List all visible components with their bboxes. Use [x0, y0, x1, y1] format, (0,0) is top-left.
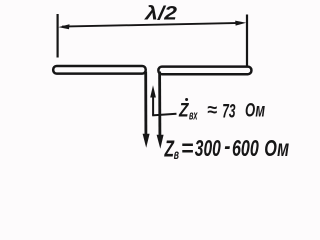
svg-text:Ом: Ом: [264, 135, 289, 161]
svg-text:Ом: Ом: [245, 101, 265, 122]
extension line left: [56, 14, 58, 58]
extension line right: [246, 15, 248, 66]
svg-text:вх: вх: [189, 107, 198, 122]
svg-text:600: 600: [232, 135, 259, 161]
feed wire right: [158, 72, 161, 137]
dipole right arm: [158, 67, 251, 75]
feed wire left: [144, 72, 147, 136]
svg-text:Z: Z: [178, 100, 189, 121]
arrowhead down right wire: [157, 135, 164, 149]
paper background: [0, 0, 309, 168]
arrowhead down left wire: [143, 134, 150, 148]
svg-text:73: 73: [222, 101, 235, 122]
up arrowhead: [150, 85, 156, 97]
svg-text:-: -: [224, 133, 230, 159]
dimension line: [62, 23, 240, 27]
svg-text:300: 300: [195, 135, 221, 161]
leader line to label: [152, 114, 176, 116]
dot over Z: [185, 98, 188, 101]
svg-text:=: =: [181, 135, 193, 161]
svg-text:в: в: [174, 147, 179, 162]
arrowhead left: [58, 24, 69, 29]
svg-text:≈: ≈: [207, 100, 217, 121]
dipole left arm: [53, 66, 146, 74]
svg-text:λ/2: λ/2: [144, 4, 178, 25]
up arrow stem (input impedance marker): [152, 96, 154, 116]
arrowhead right: [235, 21, 246, 26]
